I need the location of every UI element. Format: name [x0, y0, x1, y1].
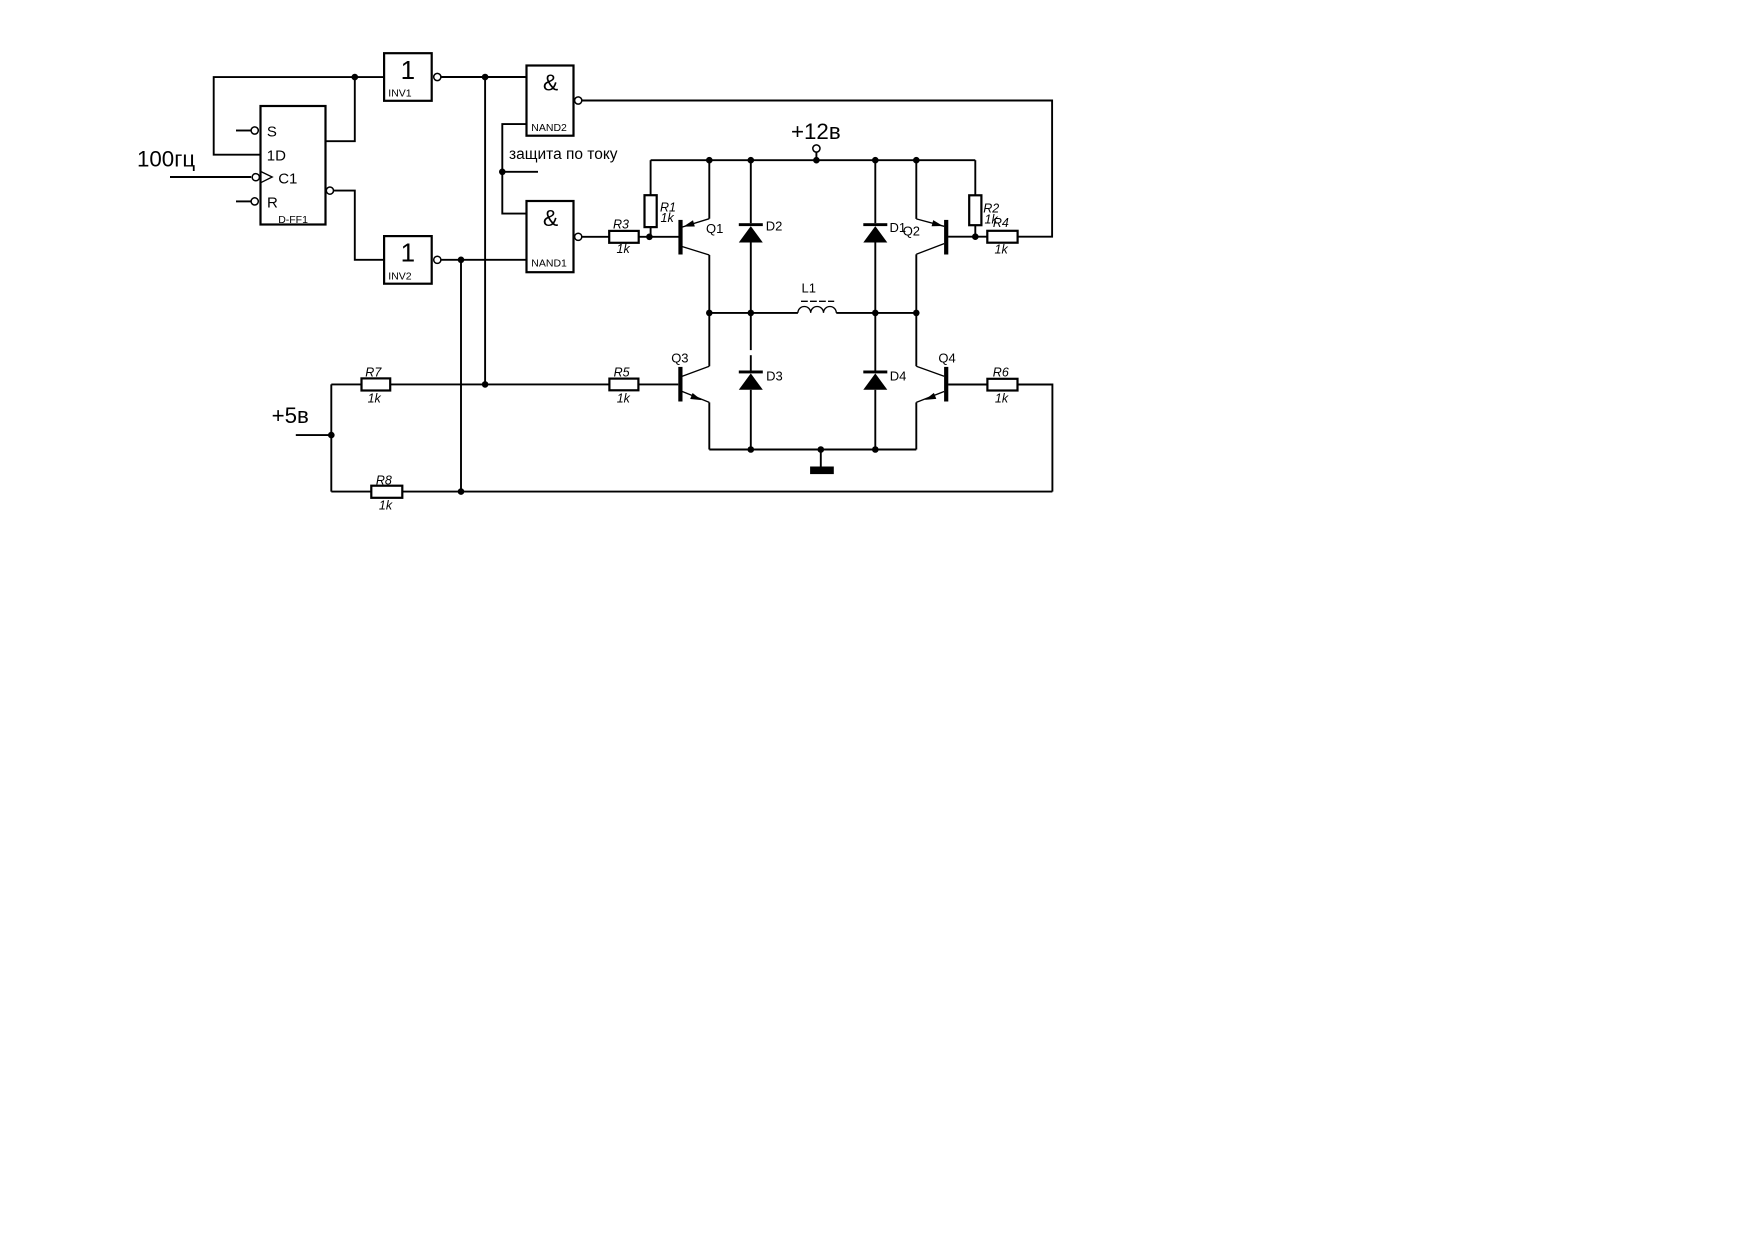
gate NAND1 [527, 201, 574, 272]
resistor R8 [371, 474, 402, 513]
ground [810, 450, 834, 475]
resistor R7 [362, 366, 391, 406]
wire middle output line left [709, 312, 798, 314]
wire left branch vertical [330, 384, 332, 491]
resistor R1 [645, 160, 676, 237]
svg-text:1k: 1k [617, 242, 631, 256]
junction current-protection tap [499, 169, 506, 176]
svg-text:1k: 1k [995, 242, 1009, 256]
pin R stub and bubble [236, 198, 258, 205]
junction INV2-out / R8 branch [458, 257, 465, 264]
svg-text:D4: D4 [890, 369, 907, 384]
svg-text:1: 1 [401, 55, 415, 85]
svg-text:D3: D3 [766, 369, 783, 384]
flip-flop D-FF1 [261, 106, 326, 226]
svg-text:1k: 1k [617, 391, 631, 405]
resistor R4 [987, 216, 1017, 257]
junction rail/+12в terminal [813, 157, 820, 164]
junction Q3 base line/INV1 branch [482, 381, 489, 388]
wire NAND2 input B / NAND1 input A vertical link [502, 124, 526, 214]
svg-text:1: 1 [401, 238, 415, 268]
wire Q3 base line [331, 383, 678, 385]
diode D4 [863, 313, 906, 450]
pin NAND1 output bubble [575, 233, 582, 240]
svg-text:1D: 1D [267, 148, 286, 165]
svg-text:R7: R7 [365, 366, 382, 380]
pin C1 bubble and clock triangle [252, 171, 272, 182]
wire Q output of D-FF1 up to INV1 input line [326, 77, 355, 141]
wire Q-bar to INV2 input [334, 191, 384, 260]
pin NAND2 output bubble [575, 97, 582, 104]
svg-text:R5: R5 [614, 366, 630, 380]
junction rail/D2 [748, 157, 755, 164]
svg-text:1k: 1k [661, 211, 675, 225]
wire emitter bus Q3-Q4 [709, 449, 916, 451]
junction R2/R4/Q2 base [972, 233, 979, 240]
junction emitter bus/D4 [872, 446, 879, 453]
svg-text:1k: 1k [995, 391, 1009, 405]
svg-text:D-FF1: D-FF1 [278, 214, 308, 226]
junction middle/Q2-Q4 collectors [913, 310, 920, 317]
svg-text:1k: 1k [368, 391, 382, 405]
junction rail/D1 [872, 157, 879, 164]
wire current protection stub [502, 171, 538, 173]
junction R1/R3/Q1 base [646, 234, 653, 241]
wire R6 around to R8 line [1018, 385, 1053, 492]
svg-text:C1: C1 [278, 171, 297, 188]
wire NAND2 output around to R4 [582, 101, 1052, 237]
node +12в terminal [791, 119, 841, 160]
svg-text:+5в: +5в [272, 403, 309, 428]
svg-text:INV2: INV2 [388, 270, 412, 282]
svg-text:R4: R4 [993, 216, 1009, 230]
wire INV1 output to NAND2 input A [441, 76, 527, 78]
wire top line into INV1 and feedback to 1D [214, 77, 384, 155]
svg-text:Q1: Q1 [706, 221, 723, 236]
svg-text:+12в: +12в [791, 119, 841, 144]
junction rail/Q2 emitter [913, 157, 920, 164]
transistor Q3 [671, 313, 709, 450]
diode D3 [739, 313, 783, 450]
gate NAND2 [527, 66, 574, 136]
wire R3 to Q1 base [639, 236, 679, 238]
svg-text:NAND2: NAND2 [531, 122, 567, 134]
junction middle/Q1-Q3 collectors [706, 310, 713, 317]
wire middle output line right [836, 312, 916, 314]
inductor L1 [798, 280, 836, 313]
junction +5в node [328, 432, 335, 439]
pin INV2 output bubble [434, 256, 441, 263]
node +5в supply [272, 403, 332, 435]
wire R8 bottom line [331, 491, 1052, 493]
svg-text:R: R [267, 194, 278, 211]
wire INV2 output to NAND1 input B [441, 259, 527, 261]
wire vertical from INV1 output down to Q3 base line [484, 77, 486, 384]
svg-text:R6: R6 [993, 366, 1009, 380]
wire +12в power rail [651, 159, 976, 161]
junction emitter bus/ground [818, 446, 825, 453]
wire CLK input to C1 [170, 176, 251, 178]
inverter INV1 [384, 53, 432, 101]
transistor Q2 [903, 160, 949, 313]
resistor R5 [609, 366, 638, 406]
pin S stub and bubble [236, 127, 258, 134]
svg-text:S: S [267, 123, 277, 140]
resistor R3 [609, 218, 639, 256]
svg-text:R8: R8 [376, 474, 392, 488]
svg-text:Q3: Q3 [671, 350, 688, 365]
diode D2 [739, 160, 783, 313]
svg-text:&: & [543, 205, 558, 231]
svg-text:L1: L1 [802, 280, 816, 295]
svg-text:D2: D2 [766, 218, 783, 233]
junction middle/D2-D3 [748, 310, 755, 317]
wire NAND1 output to R3 [582, 236, 609, 238]
pin INV1 output bubble [434, 73, 441, 80]
junction middle/D1-D4 [872, 310, 879, 317]
junction emitter bus/D3 [748, 446, 755, 453]
svg-text:INV1: INV1 [388, 88, 412, 100]
svg-text:NAND1: NAND1 [531, 258, 567, 270]
transistor Q1 [678, 160, 723, 313]
svg-text:1k: 1k [379, 499, 393, 513]
junction rail/Q1 emitter [706, 157, 713, 164]
wire vertical from INV2 output down to R8 line [460, 260, 462, 492]
inverter INV2 [384, 236, 432, 284]
svg-text:100гц: 100гц [137, 147, 195, 172]
wire Q4 base line to R6 [948, 384, 987, 386]
transistor Q4 [916, 313, 955, 450]
junction Q/top-line [352, 74, 359, 81]
resistor R6 [987, 366, 1017, 406]
resistor R2 [969, 160, 999, 237]
wire Q2 base to R4 [948, 236, 987, 238]
svg-text:Q2: Q2 [903, 224, 920, 239]
svg-text:R3: R3 [613, 218, 629, 232]
svg-text:защита по току: защита по току [509, 146, 618, 163]
junction INV1-out / Q3 base branch [482, 74, 489, 81]
pin Q-bar bubble of D-FF1 [326, 187, 333, 194]
diode D1 [863, 160, 906, 313]
svg-text:&: & [543, 70, 558, 96]
junction R8 line/INV2 branch [458, 488, 465, 495]
svg-text:Q4: Q4 [938, 350, 955, 365]
